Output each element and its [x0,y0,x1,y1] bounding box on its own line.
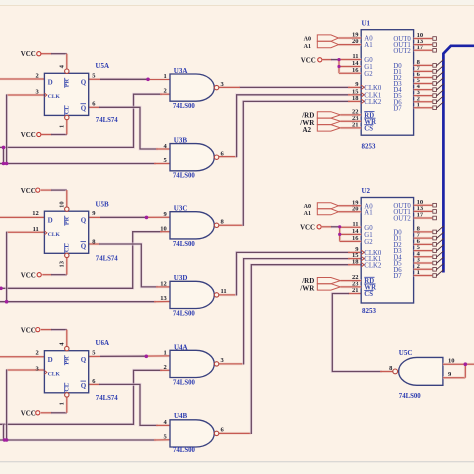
port /RD /WR into U2 [317,278,340,284]
svg-text:1: 1 [58,125,65,128]
svg-text:13: 13 [58,260,65,267]
svg-text:Q: Q [81,105,87,113]
D flip-flop U6A 74LS74 [36,342,97,406]
VCC to U1 G0 G1 G2 [318,58,322,62]
svg-text:U5C: U5C [399,349,413,357]
svg-text:G1: G1 [364,232,372,239]
port A0 A1 into U2 [317,203,338,209]
svg-text:10: 10 [58,201,65,208]
junction H2a edge [0,287,3,291]
D flip-flop U5B 74LS74 [32,201,96,267]
svg-text:Q: Q [81,356,87,364]
U1 D7 bus entry [414,106,433,109]
svg-text:U3C: U3C [174,205,188,213]
wire U6A Qbar pin6 to U4B pin4 [89,383,100,386]
wire U5B Q pin9 to U3C pin9 [89,216,170,219]
wire H2a net to U3C pin10 [0,232,162,289]
U1 D4 bus entry [414,88,433,91]
svg-text:U2: U2 [362,187,371,195]
wire U3B out pin6 to U1 CLK1 [219,155,237,158]
U1 D3 bus entry [414,82,433,85]
svg-text:U4B: U4B [174,412,188,420]
U1 OUT2 terminal [414,49,433,52]
svg-text:74LS00: 74LS00 [173,310,196,317]
svg-text:8253: 8253 [362,143,377,151]
U2 OUT1 terminal [414,210,433,213]
8253 timer U2 [352,198,424,304]
wire U5B D pin12 input [0,216,44,219]
wire VCC to U5A PR pin4 [41,52,52,55]
U1 D2 bus entry [414,76,433,79]
NAND gate U3B 74LS00 [164,143,225,171]
junction row2 Q net [145,216,149,220]
svg-text:1: 1 [164,73,167,80]
wire U6A Q pin5 to U4A pin1 [89,354,170,358]
svg-text:D: D [48,79,53,87]
U1 OUT1 terminal [414,43,433,46]
NAND gate U3A 74LS00 [164,73,225,101]
svg-text:2: 2 [36,350,39,357]
VCC symbol [37,273,41,277]
svg-text:18: 18 [352,95,359,102]
svg-text:U5B: U5B [96,201,110,209]
U1 D5 bus entry [414,94,433,97]
svg-text:VCC: VCC [21,272,36,279]
U2 OUT2 terminal [414,217,433,220]
svg-text:11: 11 [221,288,227,295]
D flip-flop U5A 74LS74 [36,64,97,128]
wire VCC to U6A PR pin4 [41,328,52,331]
svg-text:VCC: VCC [301,57,316,64]
svg-text:74LS74: 74LS74 [96,117,119,124]
NAND gate U4B 74LS00 [164,419,225,447]
8253 timer U1 [352,30,424,136]
wire U4A out pin3 to U2 CLK1 [219,362,244,365]
svg-text:D: D [48,217,53,225]
NAND gate U3D 74LS00 [160,281,226,309]
svg-text:1: 1 [164,350,167,357]
wire H2b clock net row2 to U3D pin13 [0,300,156,303]
svg-text:G0: G0 [364,225,373,232]
svg-text:CLK: CLK [48,232,61,238]
svg-text:U4A: U4A [174,343,188,351]
svg-text:U3A: U3A [174,67,188,75]
U2 D2 bus entry [414,243,433,246]
svg-text:VCC: VCC [21,411,36,418]
wire U5B Qbar pin8 to U3D pin12 [89,243,100,246]
svg-text:74LS00: 74LS00 [173,103,196,110]
wire link V_A row1 [2,147,5,163]
svg-text:CLK0: CLK0 [364,85,382,92]
wire U6A D pin2 input [0,355,44,358]
svg-text:CS: CS [364,126,373,133]
svg-text:VCC: VCC [300,224,315,231]
wire U4B out pin6 to U2 CLK2 [219,432,252,435]
wire U5C input pins 9 10 [443,363,465,366]
U2 OUT0 terminal [414,204,433,207]
svg-text:Q: Q [81,382,87,390]
junction H2b [5,300,9,304]
wire H3a net to U4A pin2 [0,370,162,424]
svg-text:18: 18 [352,258,359,265]
U2 D5 bus entry [414,262,433,265]
svg-text:A2: A2 [302,126,311,134]
svg-text:CS: CS [364,291,373,298]
U1 OUT0 terminal [414,37,433,40]
svg-text:U1: U1 [362,19,371,27]
svg-text:G2: G2 [364,71,373,78]
U2 D7 bus entry [414,274,433,277]
VCC symbol [37,52,41,56]
svg-text:Q: Q [81,217,87,225]
wire U5A Qbar pin6 to U3B pin4 [89,106,100,109]
svg-text:74LS74: 74LS74 [96,255,119,262]
svg-text:G2: G2 [364,239,373,246]
wire H1b clock net row1 to U3B pin5 [0,162,156,165]
svg-text:10: 10 [160,225,167,232]
svg-text:D: D [48,356,53,364]
svg-text:/WR: /WR [299,285,315,293]
wire U5B CLK pin11 to clock net [7,231,45,234]
U1 D6 bus entry [414,100,433,103]
U2 D4 bus entry [414,255,433,258]
svg-text:2: 2 [164,88,167,95]
port /RD /WR A2 into U1 [317,112,340,118]
U1 D0 bus entry [414,64,433,67]
wire VCC to U5B CL pin13 [42,273,52,276]
VCC symbol [36,188,40,192]
svg-text:A1: A1 [364,209,372,216]
wire VCC to U6A CL pin1 [41,411,52,414]
svg-text:1: 1 [58,402,65,405]
svg-text:74LS00: 74LS00 [173,380,196,387]
svg-text:74LS00: 74LS00 [399,393,422,400]
wire U3C out pin8 to U1 CLK2 [219,224,244,227]
svg-text:11: 11 [33,226,39,233]
svg-text:U5A: U5A [96,62,110,70]
svg-text:VCC: VCC [21,327,36,334]
NAND gate U3C 74LS00 [160,211,224,239]
wire VCC to U5A CL pin1 [41,133,52,136]
svg-text:12: 12 [32,210,39,217]
svg-text:VCC: VCC [21,188,36,195]
U2 D3 bus entry [414,249,433,252]
svg-text:CLK2: CLK2 [364,262,382,269]
U1 D1 bus entry [414,70,433,73]
svg-text:8253: 8253 [362,307,377,315]
wire VCC to U5B PR pin10 [41,189,52,192]
wire U6A CLK pin3 to clock net [7,369,45,372]
svg-text:A1: A1 [304,211,311,217]
VCC symbol [36,328,40,332]
VCC symbol [37,132,41,136]
U2 D6 bus entry [414,268,433,271]
wire U2 CS pin21 to U5C out pin8 [348,292,361,295]
svg-text:VCC: VCC [21,51,36,58]
junction row1 Q net [146,78,150,82]
svg-text:A0: A0 [304,204,311,210]
svg-text:U3B: U3B [174,137,188,145]
svg-text:74LS00: 74LS00 [173,447,196,454]
svg-text:D7: D7 [393,105,402,112]
svg-text:Q: Q [81,79,87,87]
svg-text:A1: A1 [364,42,372,49]
svg-text:74LS74: 74LS74 [96,395,119,402]
svg-text:U6A: U6A [96,339,110,347]
svg-text:12: 12 [160,281,167,288]
U2 D1 bus entry [414,237,433,240]
wire U5A D pin2 input [0,78,44,81]
junction H1a [2,146,6,150]
wire link V_A row3 [2,424,5,440]
svg-text:74LS00: 74LS00 [173,173,196,180]
junction row3 Q net [145,355,149,359]
svg-text:OUT2: OUT2 [393,216,411,223]
svg-text:G0: G0 [364,57,373,64]
VCC to U2 G0 G1 G2 [317,225,321,229]
svg-text:CLK2: CLK2 [364,99,382,106]
svg-text:VCC: VCC [21,132,36,139]
wire U5A Q pin5 to U3A pin1 [89,78,170,81]
svg-text:CLK: CLK [48,372,61,378]
svg-text:2: 2 [164,364,167,371]
NAND gate U5C 74LS00 mirrored [389,357,454,385]
NAND gate U4A 74LS00 [164,350,225,378]
wire H1a net to U3A pin2 [0,94,162,147]
svg-text:OUT2: OUT2 [393,48,411,55]
U2 D0 bus entry [414,230,433,233]
svg-text:CLK: CLK [48,94,61,100]
data bus [443,46,474,273]
port A0 A1 into U1 [317,35,338,41]
wire U5A CLK pin3 to clock net [7,94,45,97]
svg-text:A0: A0 [304,36,311,42]
svg-text:A1: A1 [304,44,311,50]
junction H3b [3,438,7,442]
svg-text:74LS00: 74LS00 [173,241,196,248]
svg-text:U3D: U3D [174,274,188,282]
svg-text:D7: D7 [393,273,402,280]
wire U3A out pin3 to U1 CLK0 [239,86,350,89]
svg-text:Q: Q [81,243,87,251]
wire H3b clock net row3 to U4B pin5 [0,439,156,442]
junction U5C inputs [464,362,468,366]
svg-text:2: 2 [36,72,39,79]
wire U3D out pin11 to U2 CLK0 [219,293,237,296]
junction H1b left [2,162,6,166]
VCC symbol [36,411,40,415]
svg-text:13: 13 [160,295,167,302]
